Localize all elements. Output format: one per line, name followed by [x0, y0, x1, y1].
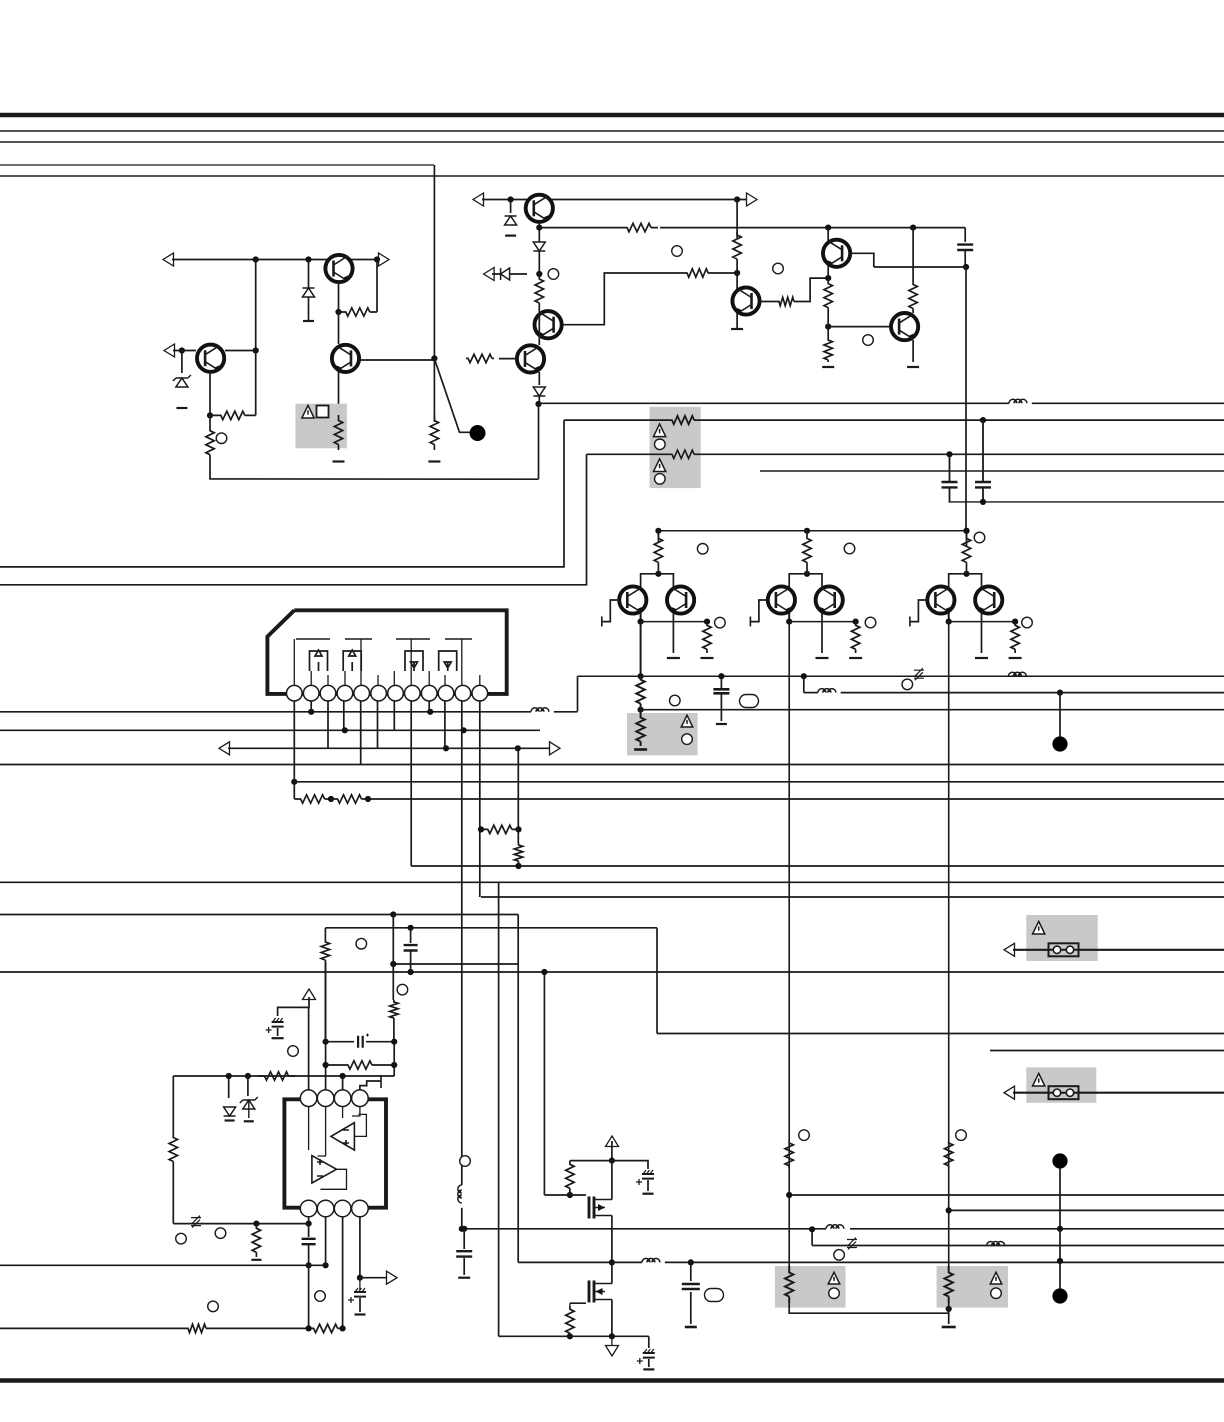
resistor R16 — [636, 713, 644, 746]
marker ring pair L1 — [697, 544, 708, 555]
junction pair left em rail b — [704, 619, 710, 625]
marker ring pair M2 — [865, 617, 876, 628]
resistor R26 — [252, 1224, 260, 1257]
junction M730b — [461, 727, 467, 733]
junction C13 — [718, 673, 724, 679]
wire bus line B1 — [0, 130, 1224, 132]
wire R9 to junction — [710, 272, 737, 274]
wire R3 up — [255, 351, 257, 416]
resistor R36 — [670, 450, 696, 458]
highlight box HB2 — [627, 713, 698, 755]
junction MF4 — [688, 1259, 694, 1265]
wire MF gate lead — [544, 1194, 586, 1196]
resistor Rp1b — [851, 622, 859, 653]
junction M711b — [427, 709, 433, 715]
op-amp A1 — [331, 1123, 354, 1150]
IC U2 outline — [284, 1099, 386, 1207]
wire left loop low — [172, 1165, 174, 1224]
transistor Q2 — [332, 345, 359, 372]
junction L3 — [459, 1226, 465, 1232]
capacitor C7 — [302, 1239, 316, 1244]
resistor R19 — [294, 795, 331, 803]
junction L6 — [801, 673, 807, 679]
resistor R33 — [785, 1266, 793, 1303]
wire VC line — [949, 1209, 1224, 1211]
wire MF ecap feed — [612, 1161, 648, 1169]
junction M916a — [390, 911, 396, 917]
resistor R11 — [733, 232, 741, 262]
terminal bar C11 — [643, 1368, 654, 1370]
wire C5 to Q9 base — [828, 326, 890, 328]
wire pin11 drop — [461, 701, 463, 1185]
wire TP3 down — [1059, 1168, 1061, 1229]
junction pair middle rail — [804, 528, 810, 534]
capacitor C5 electrolytic — [272, 1022, 284, 1027]
capacitor C2 — [975, 482, 991, 487]
junction B1a — [508, 196, 514, 202]
wire long vertical VA — [640, 622, 642, 677]
wire cap C3 lead2 — [949, 488, 951, 502]
wire bus M1050 — [990, 1050, 1224, 1052]
resistor R17 — [390, 1000, 398, 1020]
junction MF6 — [567, 1333, 573, 1339]
junction R34 low — [946, 1306, 952, 1312]
wire bus M676 — [578, 675, 1224, 677]
junction C2 — [734, 270, 740, 276]
wire pin10 drop — [444, 701, 446, 748]
wire pin5 drop — [360, 701, 362, 765]
wire bus M1265 — [0, 1264, 326, 1266]
terminal pair right stub bar — [909, 617, 911, 627]
wire pin7 drop — [393, 701, 395, 730]
mosfet Q10 — [588, 1197, 591, 1219]
wire corner link N2 — [0, 454, 587, 585]
wire left loop — [172, 1076, 174, 1134]
marker oval MV1 — [705, 1289, 724, 1302]
zener diode ZD1 — [173, 375, 191, 387]
resistor R4 — [206, 415, 214, 470]
resistor R3 — [210, 411, 256, 419]
wire R18 down — [324, 962, 326, 1042]
capacitor C12 — [682, 1284, 700, 1289]
wire cap C6 line2 — [366, 1041, 394, 1043]
wire zener ZD3 lead — [247, 1076, 249, 1096]
wire pair right collector L — [949, 574, 967, 587]
junction P3a — [946, 451, 952, 457]
junction OP5a — [226, 1073, 232, 1079]
wire OP gnd rail — [173, 1223, 308, 1225]
marker ring MR2 — [956, 1130, 967, 1141]
terminal bar R2 — [333, 460, 345, 462]
wire long vertical VB — [788, 622, 790, 1272]
resistor R34 — [945, 1266, 953, 1303]
warning icon HB6 — [990, 1272, 1001, 1284]
wire Q4t emitter — [538, 222, 540, 243]
wire C1 cap down — [964, 251, 966, 267]
transistor Q3 — [197, 345, 224, 372]
wire bus M866 — [411, 865, 1224, 867]
wire fuse2 left — [1013, 1092, 1049, 1094]
terminal bar R26 — [251, 1259, 261, 1261]
junction VB a — [786, 1192, 792, 1198]
junction OP8 — [306, 1262, 312, 1268]
junction pair left rail — [655, 528, 661, 534]
wire B4 down — [538, 404, 540, 479]
wire V966 lower — [966, 531, 968, 546]
wire bus M1228 right — [850, 1228, 1224, 1230]
wire V498 — [498, 883, 500, 1336]
wire C10 low — [647, 1180, 649, 1191]
junction pair right em rail b — [1012, 619, 1018, 625]
wire R30 top — [569, 1303, 571, 1306]
junction OP5c — [340, 1073, 346, 1079]
wire OP input line — [173, 1075, 394, 1077]
marker ring MC3 — [863, 335, 874, 346]
wire corner M676 — [577, 676, 579, 711]
inductor L7 — [1008, 672, 1026, 676]
terminal bar D5 — [225, 1119, 235, 1121]
junction MF7 — [609, 1333, 615, 1339]
terminal pair left stub bar — [601, 617, 603, 627]
resistor R9 — [685, 269, 710, 277]
wire Q1 emitter — [338, 282, 340, 312]
wire Q3 emitter — [209, 372, 211, 416]
terminal bar Q7 — [731, 328, 743, 330]
wire cap C3 lead — [949, 454, 951, 481]
fuse F2 — [1049, 1086, 1079, 1099]
capacitor C9 — [456, 1251, 472, 1256]
junction TP4a — [1057, 1258, 1063, 1264]
wire C1 down — [736, 200, 738, 239]
terminal bar C12 — [685, 1326, 697, 1329]
connector arrow right B1 — [747, 193, 758, 206]
junction Q1e — [335, 309, 341, 315]
resistor Rp2a — [962, 531, 970, 570]
marker ring M17 — [397, 984, 408, 995]
wire R34 gnd — [948, 1303, 950, 1324]
transistor Qp1R — [816, 586, 843, 613]
resistor Rp0a — [654, 531, 662, 570]
junction rail right — [963, 528, 969, 534]
wire rail P4 — [760, 470, 1224, 472]
connector arrow M745R — [550, 742, 561, 755]
wire bus M711 right — [554, 711, 578, 713]
wire OP8 down — [308, 1265, 310, 1328]
wire diode D1 lead — [308, 260, 310, 322]
marker ring HB5 — [829, 1288, 840, 1299]
test point TP3 — [1052, 1153, 1067, 1168]
wire MF drain2 — [611, 1161, 613, 1200]
wire TP4 up — [1059, 1261, 1061, 1289]
wire node A2 — [173, 350, 196, 352]
wire VB line — [789, 1194, 1224, 1196]
wire pair right emitter rail — [949, 621, 1015, 623]
highlight box HB6 — [937, 1266, 1008, 1308]
marker ring MO4 — [315, 1291, 326, 1302]
wire pair middle collector L — [789, 574, 807, 587]
wire C12 link2 — [690, 1292, 692, 1324]
warning icon HB4 — [1033, 1073, 1045, 1086]
wire M1245 stub — [811, 1229, 813, 1245]
junction MF3 — [609, 1259, 615, 1265]
wire pair left base stub — [602, 600, 620, 622]
highlight box HB5 — [775, 1266, 846, 1308]
wire bus M1262 right — [665, 1261, 1224, 1263]
connector arrow left A2 — [164, 344, 175, 357]
resistor R20 — [331, 795, 368, 803]
wire bottom border thick — [0, 1378, 1224, 1383]
resistor R24 — [258, 1072, 295, 1080]
wire L6 left — [804, 692, 818, 694]
wire MF source rail — [499, 1335, 649, 1337]
junction R21a — [478, 826, 484, 832]
terminal bar T4 — [380, 1075, 382, 1088]
wire MF source — [611, 1216, 613, 1263]
wire bus M972 — [0, 971, 1224, 973]
wire V393 low — [393, 1020, 395, 1042]
inductor L8 — [826, 1225, 844, 1229]
wire R11 to C2 — [736, 262, 738, 273]
wire MF drain — [611, 1141, 613, 1161]
marker ring MO3 — [208, 1301, 219, 1312]
junction R21b — [515, 826, 521, 832]
junction VA bus — [638, 673, 644, 679]
junction TP3a — [1057, 1226, 1063, 1232]
resistor R left pair drop — [636, 676, 644, 707]
inductor L1 — [1009, 399, 1027, 403]
transistor Qp0L — [619, 586, 646, 613]
junction OP10 — [357, 1275, 363, 1281]
wire bus M964 — [393, 963, 518, 965]
wire MF5 drain — [611, 1262, 613, 1283]
hatch mark H2 — [847, 1238, 857, 1250]
terminal bar R5 — [428, 460, 440, 462]
highlight box HB3 fuse1 — [1026, 915, 1097, 961]
wire top cap feed — [964, 228, 966, 242]
wire C12 link — [690, 1262, 692, 1281]
highlight box HB1 — [295, 404, 347, 449]
resistor R27 — [186, 1324, 208, 1332]
marker ring pair M1 — [844, 543, 855, 554]
wire Qp2R emitter — [981, 613, 983, 653]
junction M776a — [291, 779, 297, 785]
junction V544 — [541, 969, 547, 975]
terminal pair middle stub bar — [749, 617, 751, 627]
wire C5 low — [277, 1028, 279, 1036]
wire C7 link — [308, 1224, 310, 1237]
resistor R32 — [945, 1141, 953, 1168]
wire C7 link2 — [308, 1245, 310, 1266]
wire bus M730 — [0, 729, 540, 731]
resistor Rp2b — [1011, 622, 1019, 653]
wire bus line B4 — [0, 175, 1224, 177]
resistor R29 — [566, 1161, 574, 1192]
hatch mark H1 — [191, 1216, 201, 1228]
wire cap C4 link2 — [410, 951, 412, 972]
terminal bar R16 — [634, 748, 647, 751]
wire R1 to A1c — [376, 260, 378, 313]
terminal bar C8 — [355, 1313, 366, 1315]
IC U2 bottom pins — [300, 1200, 317, 1217]
wire Q3e to bottom rail — [210, 470, 539, 479]
wire Qp2L emitter — [948, 613, 950, 622]
junction C3 — [825, 275, 831, 281]
wire V544 — [543, 972, 545, 1195]
wire pin3 drop — [327, 701, 329, 748]
wire cap C4 link — [410, 928, 412, 943]
wire R12 to C3 — [796, 278, 828, 301]
wire bus M745 — [228, 747, 551, 749]
wire corner M928 left — [324, 928, 326, 940]
marker ring MO2 — [215, 1228, 226, 1239]
wire VA link — [640, 707, 642, 713]
IC U1 pins 1-12 — [287, 685, 303, 701]
junction R22 — [515, 863, 521, 869]
terminal bar C10 — [643, 1193, 654, 1195]
mosfet Q11 — [588, 1281, 591, 1303]
wire Q2 base to bus — [358, 359, 434, 361]
wire Q3 collector link — [255, 260, 257, 351]
resistor R5 — [430, 415, 438, 450]
wire C8 top — [359, 1278, 361, 1290]
wire V966 upper — [965, 267, 967, 531]
terminal bar D1 — [303, 320, 314, 322]
capacitor C3 — [942, 482, 958, 487]
junction M745b — [515, 745, 521, 751]
wire rail P1 cont — [1032, 402, 1224, 404]
fuse F1 — [1049, 943, 1079, 956]
wire bus line B3 partial — [0, 164, 434, 166]
wire Q7 base — [760, 301, 777, 303]
ground bar pair middle R — [816, 657, 829, 659]
warning icon HB1 — [302, 405, 314, 418]
resistor Rp1a — [803, 531, 811, 570]
terminal bar C5 — [272, 1037, 284, 1039]
capacitor C10 electrolytic — [642, 1174, 654, 1179]
connector arrow fuse1 — [1004, 943, 1015, 956]
junction P2a — [980, 417, 986, 423]
wire corner M928-M1033 — [656, 928, 658, 1034]
wire pinT3 up — [342, 1076, 344, 1090]
junction OP11 — [306, 1325, 312, 1331]
wire diode D2 lead — [510, 200, 512, 214]
wire bus M798 ext — [368, 798, 1224, 800]
wire zener ZD2 lead — [492, 273, 527, 275]
marker ring pair L2 — [715, 617, 726, 628]
resistor R30 — [566, 1306, 574, 1336]
wire rail corner left — [657, 531, 659, 542]
inductor L4 — [642, 1258, 660, 1262]
wire bus M1328 — [0, 1327, 186, 1329]
wire pin2 drop — [310, 701, 312, 712]
transistor Q5 — [535, 311, 562, 338]
wire rail P3a — [587, 453, 671, 455]
marker ring MR1 — [799, 1130, 810, 1141]
wire long vertical VC — [948, 622, 950, 1272]
wire C4 to Q8 — [827, 228, 829, 279]
wire bus M776 — [294, 781, 1224, 783]
connector arrow left A1 — [163, 253, 174, 266]
warning icon HB2 — [681, 715, 692, 727]
inductor L2 — [531, 708, 549, 712]
wire V393 — [392, 915, 394, 1001]
junction pair middle em rail b — [853, 619, 859, 625]
test point TP2 — [1052, 736, 1067, 751]
junction M711a — [308, 709, 314, 715]
marker ring HB7a — [655, 439, 666, 450]
transistor Q6 — [517, 345, 544, 372]
transistor Q4t — [526, 195, 553, 222]
diode D4 — [533, 387, 545, 396]
wire bus M709 ext — [641, 709, 1224, 711]
capacitor C8 electrolytic — [354, 1292, 366, 1297]
junction C6 — [910, 225, 916, 231]
junction pair right split — [963, 571, 969, 577]
wire pin12 drop — [479, 701, 481, 897]
junction C7 — [963, 264, 969, 270]
wire bus M928 — [325, 927, 657, 929]
wire pin1 drop — [293, 701, 295, 799]
ground bar pair right res — [1009, 657, 1022, 659]
warning icon HB7b — [653, 459, 665, 472]
terminal bar Q9 — [907, 366, 919, 368]
junction OP1 — [323, 1039, 329, 1045]
wire fuse1 left — [1013, 949, 1049, 951]
IC U1 internal circuitry — [310, 650, 328, 671]
junction pair right em rail a — [946, 619, 952, 625]
wire pinT4 up — [360, 1081, 381, 1090]
op-amp internal wires — [309, 1106, 367, 1189]
wire bus M1033 — [657, 1033, 1224, 1035]
warning icon HB3 — [1033, 921, 1045, 934]
connector arrow right A1 — [379, 253, 390, 266]
wire rail P5 — [949, 501, 1224, 503]
wire Rp0 link — [657, 570, 659, 574]
wire V394 link — [393, 1042, 395, 1076]
junction pair middle em rail a — [786, 619, 792, 625]
wire bus M1228 left — [462, 1228, 826, 1230]
wire M676 drop — [803, 676, 805, 692]
marker ring HB2 — [682, 734, 693, 745]
wire MF gate top — [570, 1160, 612, 1162]
wire Q1-Q2 chain — [338, 312, 340, 344]
wire bus M882 — [0, 881, 1224, 883]
wire bus M1328b — [208, 1327, 309, 1329]
zener diode ZD3 — [240, 1097, 258, 1109]
wire test point lead — [435, 359, 470, 432]
wire pinB2 down — [325, 1217, 327, 1265]
wire pinB1 down — [308, 1217, 310, 1224]
wire bus M1262 mid — [612, 1261, 642, 1263]
zener ZD3 body — [248, 1100, 250, 1118]
marker ring pair R1 — [974, 532, 985, 543]
junction C5 — [825, 324, 831, 330]
capacitor C1 — [957, 245, 973, 250]
wire R7 lead — [539, 227, 620, 229]
wire cap C6 line — [326, 1041, 354, 1043]
transistor Qp2L — [927, 586, 954, 613]
wire pinB4 down — [359, 1217, 361, 1278]
resistor R2 — [334, 415, 342, 450]
wire Qp1R emitter — [821, 613, 823, 653]
wire rail P3b — [696, 453, 1224, 455]
wire fuse1 right — [1078, 949, 1224, 951]
marker oval MV2 — [740, 695, 759, 708]
wire cap C2 lead2 — [982, 488, 984, 502]
square icon HB1 — [317, 406, 329, 418]
wire C2 to Q7 — [736, 273, 738, 329]
connector arrow right OP — [387, 1271, 398, 1284]
